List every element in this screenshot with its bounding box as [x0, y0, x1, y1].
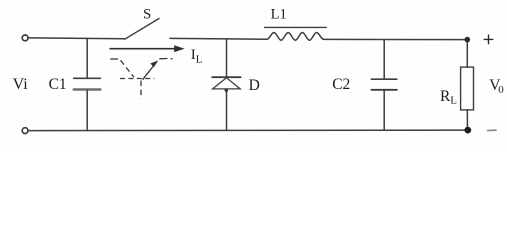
svg-text:Vi: Vi: [13, 76, 29, 93]
svg-text:D: D: [249, 77, 260, 94]
svg-text:C2: C2: [332, 76, 350, 93]
svg-text:0: 0: [498, 84, 504, 96]
svg-text:L1: L1: [271, 6, 287, 22]
svg-text:L: L: [450, 95, 457, 107]
svg-text:S: S: [143, 6, 151, 22]
svg-text:C1: C1: [49, 76, 67, 93]
svg-text:L: L: [196, 53, 203, 65]
